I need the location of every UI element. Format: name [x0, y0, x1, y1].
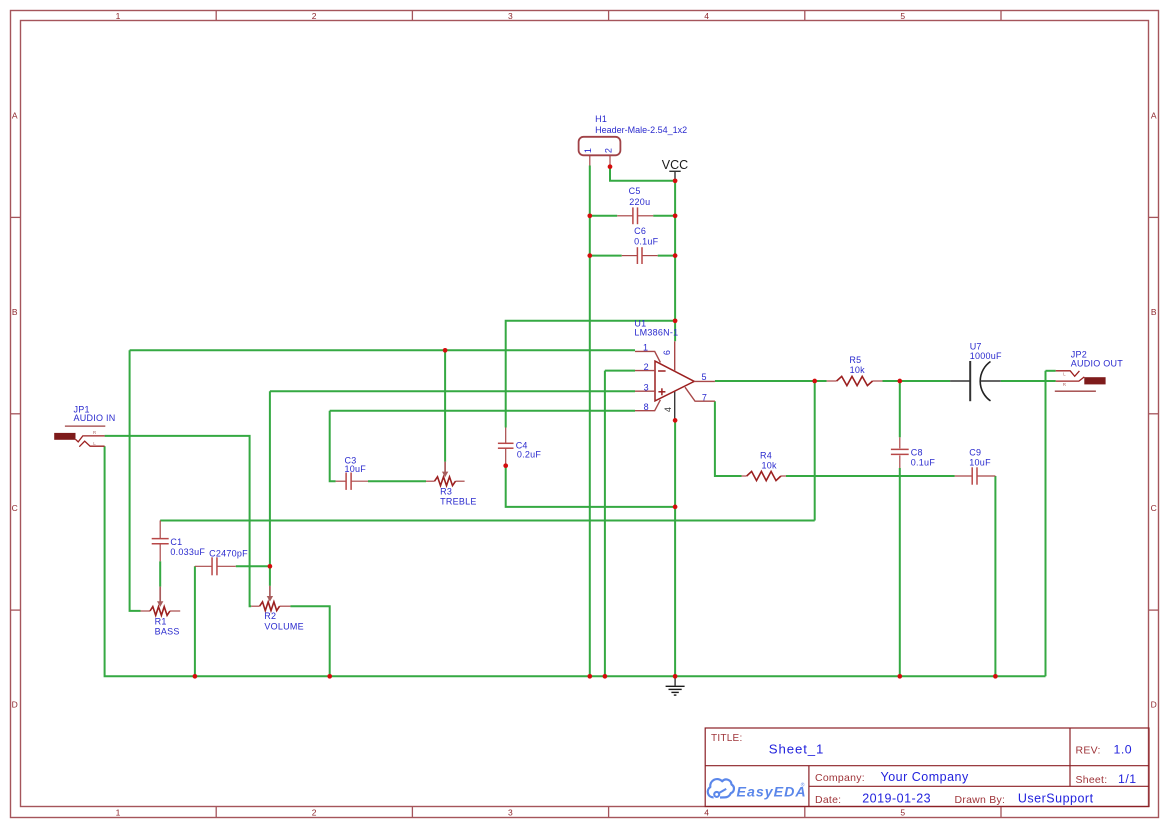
svg-text:UserSupport: UserSupport — [1018, 791, 1094, 805]
svg-text:0.1uF: 0.1uF — [911, 458, 936, 468]
svg-text:C8: C8 — [911, 448, 923, 458]
svg-text:0.2uF: 0.2uF — [517, 449, 542, 459]
svg-text:R2: R2 — [264, 611, 276, 621]
svg-text:Header-Male-2.54_1x2: Header-Male-2.54_1x2 — [595, 125, 687, 135]
svg-text:R1: R1 — [155, 616, 167, 626]
svg-text:1: 1 — [583, 148, 593, 153]
svg-text:C1: C1 — [170, 537, 182, 547]
svg-text:6: 6 — [662, 350, 672, 355]
svg-text:C5: C5 — [629, 186, 641, 196]
svg-text:R4: R4 — [760, 450, 772, 460]
svg-text:5: 5 — [900, 807, 905, 817]
svg-text:1/1: 1/1 — [1118, 772, 1137, 786]
svg-text:A: A — [12, 110, 18, 120]
svg-text:10k: 10k — [850, 365, 866, 375]
svg-text:1: 1 — [116, 11, 121, 21]
svg-text:0.1uF: 0.1uF — [634, 237, 659, 247]
svg-text:VCC: VCC — [662, 158, 688, 172]
svg-text:Sheet:: Sheet: — [1076, 774, 1108, 786]
svg-text:10k: 10k — [762, 460, 778, 470]
svg-text:R: R — [1063, 382, 1067, 387]
svg-text:1000uF: 1000uF — [970, 351, 1002, 361]
svg-text:1: 1 — [116, 807, 121, 817]
svg-text:C2470pF: C2470pF — [209, 549, 248, 559]
svg-text:VOLUME: VOLUME — [264, 622, 304, 632]
svg-text:4: 4 — [663, 407, 673, 412]
svg-text:L: L — [93, 441, 96, 446]
svg-text:R3: R3 — [440, 486, 452, 496]
svg-text:2: 2 — [312, 807, 317, 817]
svg-text:5: 5 — [702, 372, 707, 382]
svg-text:Sheet_1: Sheet_1 — [769, 741, 824, 756]
svg-text:A: A — [1151, 110, 1157, 120]
svg-text:3: 3 — [644, 382, 649, 392]
svg-text:220u: 220u — [629, 197, 650, 207]
svg-text:U7: U7 — [970, 341, 982, 351]
svg-text:10uF: 10uF — [345, 464, 367, 474]
svg-text:C6: C6 — [634, 226, 646, 236]
svg-text:®: ® — [801, 782, 805, 789]
svg-text:3: 3 — [508, 11, 513, 21]
svg-text:C: C — [12, 503, 18, 513]
svg-text:8: 8 — [644, 402, 649, 412]
svg-text:2: 2 — [312, 11, 317, 21]
svg-text:TITLE:: TITLE: — [711, 733, 743, 744]
svg-text:4: 4 — [704, 11, 709, 21]
svg-text:Drawn By:: Drawn By: — [955, 794, 1006, 806]
svg-text:1.0: 1.0 — [1114, 742, 1133, 756]
svg-text:C9: C9 — [969, 447, 981, 457]
svg-text:D: D — [12, 700, 18, 710]
svg-text:H1: H1 — [595, 114, 607, 124]
svg-text:AUDIO OUT: AUDIO OUT — [1071, 358, 1124, 368]
svg-text:0.033uF: 0.033uF — [170, 547, 205, 557]
svg-text:TREBLE: TREBLE — [440, 497, 477, 507]
svg-text:2019-01-23: 2019-01-23 — [862, 791, 931, 805]
svg-text:BASS: BASS — [155, 627, 180, 637]
svg-text:EasyEDA: EasyEDA — [737, 785, 807, 801]
svg-text:Company:: Company: — [815, 772, 865, 784]
svg-text:D: D — [1151, 700, 1157, 710]
svg-text:REV:: REV: — [1076, 745, 1101, 757]
svg-text:C: C — [1151, 503, 1157, 513]
svg-text:2: 2 — [603, 148, 613, 153]
svg-text:1: 1 — [643, 343, 648, 353]
svg-text:AUDIO IN: AUDIO IN — [74, 413, 116, 423]
svg-text:LM386N-1: LM386N-1 — [634, 328, 678, 338]
svg-text:R: R — [93, 430, 97, 435]
svg-text:3: 3 — [508, 807, 513, 817]
svg-text:Your Company: Your Company — [881, 770, 969, 784]
svg-text:B: B — [1151, 307, 1157, 317]
svg-text:R5: R5 — [849, 355, 861, 365]
svg-text:2: 2 — [644, 362, 649, 372]
svg-text:B: B — [12, 307, 18, 317]
svg-text:7: 7 — [702, 392, 707, 402]
svg-text:L: L — [1063, 372, 1066, 377]
svg-text:Date:: Date: — [815, 794, 841, 806]
svg-text:4: 4 — [704, 807, 709, 817]
svg-text:5: 5 — [900, 11, 905, 21]
svg-text:10uF: 10uF — [969, 458, 991, 468]
